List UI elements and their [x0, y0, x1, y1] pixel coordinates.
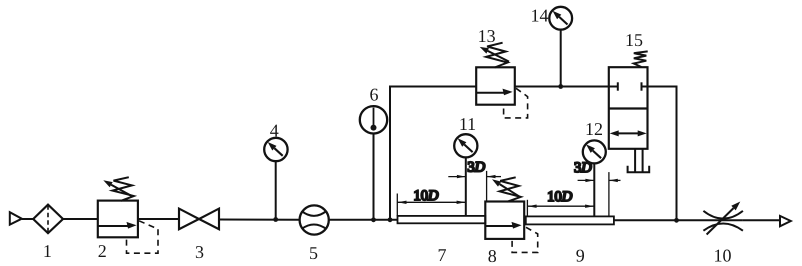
node at gauge 6 tap: [371, 217, 376, 222]
wire pipe 9 to throttle 10: [614, 219, 743, 221]
valve V15 exhaust cup: [628, 166, 650, 173]
wire regulator 13 to valve 15: [515, 86, 609, 88]
gauge G12 stem: [593, 163, 595, 217]
svg-text:11: 11: [459, 114, 476, 134]
regulator R2 adjust arrow: [111, 185, 132, 196]
svg-text:14: 14: [531, 6, 549, 26]
dimension 10D (pipe 7): [397, 201, 466, 203]
flow meter 5: [300, 205, 329, 234]
regulator R13 body: [476, 67, 515, 104]
shutoff valve 3: [179, 209, 199, 230]
svg-text:8: 8: [488, 246, 497, 266]
gauge G14 stem: [560, 30, 562, 87]
wire inlet to filter: [22, 218, 33, 220]
wire throttle to outlet: [743, 219, 780, 221]
svg-text:2: 2: [98, 241, 107, 261]
regulator R13 adjust arrow: [488, 51, 509, 62]
svg-text:9: 9: [576, 246, 585, 266]
node at gauge 14 tap: [558, 84, 563, 89]
svg-text:1: 1: [43, 241, 52, 261]
valve V15 left blocked port: [609, 86, 618, 88]
svg-text:7: 7: [438, 245, 447, 265]
gauge G11 stem: [465, 157, 467, 216]
regulator R8 pilot dashed line: [512, 227, 538, 252]
node at branch riser: [388, 217, 393, 222]
wire valve 3 to flowmeter 5: [219, 219, 300, 221]
regulator R2 spring: [113, 177, 134, 201]
pressure gauge 4: [264, 138, 287, 161]
throttle valve 10 arcs: [703, 211, 743, 219]
gauge G4 stem: [275, 161, 277, 219]
regulator R2 body: [98, 201, 138, 238]
throttle valve 10 adjust arrow: [707, 208, 734, 234]
svg-text:3D: 3D: [574, 160, 592, 176]
valve V15 spring: [634, 51, 648, 67]
dimension extension line (reg 8 left): [486, 171, 488, 202]
regulator R13 pilot dashed line: [504, 88, 528, 118]
svg-text:6: 6: [370, 85, 379, 105]
regulator R8 body: [485, 202, 524, 239]
valve V15 position divider: [609, 107, 648, 109]
dimension 3D (pipe 9 right): [578, 179, 595, 181]
svg-text:10: 10: [714, 246, 732, 266]
wire filter to regulator 2: [63, 218, 98, 220]
regulator R8 flow arrow: [485, 225, 516, 227]
wire riser to top branch: [390, 87, 476, 220]
svg-text:10D: 10D: [414, 188, 440, 204]
dimension 3D (pipe 7 right): [448, 176, 466, 178]
source arrow (inlet): [10, 212, 22, 224]
dimension 10D (pipe 9): [527, 205, 594, 207]
svg-text:3D: 3D: [467, 159, 485, 175]
filter 1 (diamond): [33, 205, 63, 234]
pressure gauge 12: [583, 140, 606, 163]
pressure gauge 14: [549, 7, 572, 30]
regulator R13 spring: [486, 43, 508, 68]
regulator R8 spring: [500, 177, 521, 201]
svg-text:15: 15: [625, 30, 643, 50]
test pipe 9: [526, 216, 614, 224]
valve V15 right blocked port: [642, 86, 648, 88]
dimension extension line (pipe 7 left): [396, 194, 398, 216]
wire regulator 2 to valve 3: [138, 218, 179, 220]
node at gauge 4 tap: [273, 217, 278, 222]
pressure gauge 11: [454, 134, 477, 157]
regulator R13 flow arrow: [476, 92, 507, 94]
svg-text:12: 12: [585, 119, 603, 139]
valve V15 exhaust stem: [634, 149, 636, 173]
indicator 6 (circle with plumb needle): [360, 106, 387, 133]
valve V15 body: [609, 67, 648, 149]
svg-text:13: 13: [478, 26, 496, 46]
regulator R2 pilot dashed line: [127, 221, 159, 253]
svg-text:3: 3: [195, 242, 204, 262]
dimension extension line (pipe 9 right): [608, 172, 610, 216]
outlet arrow: [780, 216, 791, 226]
svg-text:4: 4: [270, 121, 279, 141]
valve V15 flow double arrow: [614, 132, 644, 134]
svg-text:10D: 10D: [547, 189, 573, 205]
node at valve 15 return: [674, 218, 679, 223]
gauge G6 stem: [373, 133, 375, 219]
svg-text:5: 5: [309, 243, 318, 263]
regulator R2 flow arrow: [98, 225, 131, 227]
dimension extension line (pipe 9 left): [526, 200, 528, 217]
regulator R8 adjust arrow: [500, 184, 521, 197]
filter 1 dashed element: [47, 205, 49, 232]
wire flowmeter to pipe 7: [329, 219, 398, 221]
wire valve 15 to main line: [648, 87, 677, 221]
test pipe 7: [398, 216, 486, 223]
